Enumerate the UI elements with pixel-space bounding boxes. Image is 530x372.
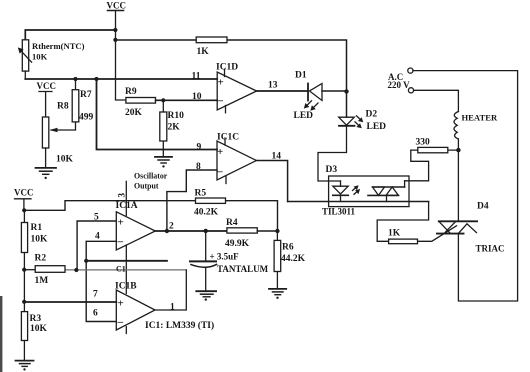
opto light arrow 1 — [353, 187, 358, 191]
ground R3 — [16, 360, 34, 362]
D2 LED arrow 1 — [357, 116, 362, 121]
svg-text:Oscillator: Oscillator — [134, 172, 168, 181]
svg-text:6: 6 — [93, 309, 98, 319]
wire AC bottom to heater — [414, 90, 459, 111]
capacitor C2 bottom lead — [205, 267, 207, 291]
svg-text:+: + — [118, 298, 124, 310]
svg-text:49.9K: 49.9K — [225, 239, 250, 249]
resistor R7 body — [72, 90, 79, 122]
node junction VCC/R1 — [22, 208, 26, 212]
svg-text:R6: R6 — [282, 243, 294, 253]
node junction pin7 — [22, 300, 26, 304]
node junction pin9 tap — [94, 77, 98, 81]
wire IC1C output pin 14 — [256, 161, 287, 202]
node junction 330/heater — [456, 148, 460, 152]
ground R10 — [155, 156, 172, 158]
wire IC1D output pin 13 — [257, 90, 308, 92]
svg-text:330: 330 — [416, 138, 431, 148]
D2 LED arrow 2 — [355, 122, 360, 127]
svg-text:R5: R5 — [195, 189, 207, 199]
op-amp IC1C triangle — [217, 141, 256, 180]
resistor 330 body and leads — [411, 149, 459, 151]
triac D4 symbol — [439, 220, 477, 222]
svg-text:R10: R10 — [168, 111, 185, 121]
svg-text:TIL3011: TIL3011 — [322, 207, 356, 217]
node junction R1/R2 — [22, 268, 26, 272]
IC1D bottom stub — [225, 106, 227, 113]
VCC symbol mid-left — [39, 92, 52, 118]
svg-text:3: 3 — [117, 193, 127, 198]
wire IC1A pin 5 — [77, 221, 116, 270]
node junction osc output — [165, 229, 169, 233]
svg-text:R9: R9 — [125, 87, 137, 97]
wire R10 leads — [162, 100, 164, 157]
wire heater to triac — [457, 139, 459, 221]
svg-text:499: 499 — [79, 113, 94, 123]
svg-text:VCC: VCC — [37, 81, 57, 91]
svg-text:5: 5 — [94, 213, 99, 223]
svg-text:2K: 2K — [168, 123, 181, 133]
svg-text:D4: D4 — [477, 202, 489, 212]
wire 1K top run — [116, 40, 347, 117]
node junction R4/R5/R6 — [275, 229, 279, 233]
svg-text:8: 8 — [196, 162, 201, 172]
capacitor C2 tantalum lead — [205, 231, 207, 261]
node junction R2/pin5 — [74, 268, 78, 272]
svg-text:Rtherm(NTC): Rtherm(NTC) — [32, 41, 85, 51]
svg-text:–: – — [216, 166, 223, 178]
svg-text:220 V: 220 V — [388, 80, 411, 90]
wire pin6 riser — [86, 261, 116, 322]
wire IC1A pin 4 — [86, 241, 116, 260]
opto triac symbol — [373, 186, 405, 188]
svg-text:IC1A: IC1A — [116, 201, 138, 211]
wire thermistor top — [25, 30, 115, 40]
opto LED symbol — [340, 181, 342, 186]
wire opto to gate loop — [377, 202, 428, 242]
VCC symbol top — [108, 10, 124, 12]
AC terminal bottom — [408, 88, 413, 93]
wire sense rail to IC1D pin 11 — [25, 78, 217, 80]
wire pin3 stub IC1A — [125, 181, 127, 215]
op-amp IC1B triangle — [116, 290, 155, 330]
svg-text:D2: D2 — [366, 110, 378, 120]
svg-text:+ 3.5uF: + 3.5uF — [210, 252, 240, 262]
ground R6 — [269, 288, 286, 290]
svg-text:C1: C1 — [116, 265, 126, 274]
svg-text:7: 7 — [93, 290, 98, 300]
IC1A bottom stub / C1 line — [125, 245, 127, 294]
wire R2 to IC1B output (gray) — [65, 269, 186, 271]
svg-text:–: – — [217, 95, 224, 107]
resistor R6 body — [274, 240, 281, 271]
svg-text:R2: R2 — [35, 254, 47, 264]
wire R8 to ground — [45, 148, 47, 168]
opto triac bottom lead — [386, 195, 388, 201]
svg-text:Output: Output — [134, 182, 159, 191]
D1 LED arrow 2 — [312, 103, 318, 109]
wire R2 row — [24, 269, 35, 271]
svg-text:1M: 1M — [35, 276, 49, 286]
node junction VCC/1K branch — [113, 38, 117, 42]
svg-text:–: – — [117, 236, 124, 248]
AC terminal top — [408, 68, 413, 73]
wire R3 to ground — [23, 341, 25, 361]
wire D1 to junction — [322, 90, 347, 92]
svg-text:R1: R1 — [31, 223, 43, 233]
svg-text:1K: 1K — [388, 229, 401, 239]
wire IC1B pin 7 — [24, 301, 116, 303]
resistor R4 body and lead — [227, 228, 257, 233]
svg-text:IC1C: IC1C — [217, 133, 239, 143]
svg-text:40.2K: 40.2K — [194, 208, 219, 218]
diode D1 triangle — [310, 84, 323, 101]
svg-text:9: 9 — [197, 143, 202, 153]
diode D2 cathode bar — [339, 125, 355, 127]
IC1D top stub — [224, 69, 226, 76]
resistor 1K body — [389, 239, 418, 244]
svg-text:+: + — [118, 217, 124, 229]
svg-text:R4: R4 — [226, 218, 238, 228]
svg-text:VCC: VCC — [14, 188, 34, 198]
R8 wiper arrowhead — [50, 128, 58, 133]
op-amp IC1D triangle — [217, 72, 256, 110]
wire opto LED row — [288, 201, 429, 203]
svg-text:2: 2 — [169, 222, 174, 232]
svg-text:10K: 10K — [30, 324, 48, 334]
scan artifact left edge — [0, 296, 2, 372]
svg-text:–: – — [117, 316, 124, 328]
wire thermistor bottom to rail — [24, 71, 26, 79]
svg-text:TANTALUM: TANTALUM — [217, 264, 269, 274]
diode D2 triangle — [339, 117, 355, 125]
svg-text:+: + — [217, 146, 223, 158]
ground C2 — [196, 290, 216, 292]
D1 LED arrow 1 — [306, 101, 312, 107]
wire AC top to right loop — [413, 71, 518, 301]
svg-text:IC1D: IC1D — [216, 63, 238, 73]
node junction R9/R10 — [161, 98, 165, 102]
resistor R10 body — [160, 112, 167, 141]
svg-text:1K: 1K — [197, 47, 210, 57]
resistor R3 body — [21, 312, 27, 341]
svg-text:D1: D1 — [295, 71, 307, 81]
wire R1 to R3 — [23, 270, 25, 312]
resistor 1K gate leads — [377, 226, 456, 242]
resistor R1 body — [21, 223, 27, 253]
wire VCC rail mid — [24, 201, 277, 231]
svg-text:IC1: LM339 (TI): IC1: LM339 (TI) — [145, 320, 214, 331]
wire IC1C pin 8 oscillator feed — [167, 170, 217, 231]
thermistor arrow — [20, 49, 32, 62]
node junction cap tap — [204, 229, 208, 233]
op-amp IC1A triangle — [116, 212, 155, 250]
potentiometer R8 body — [42, 117, 48, 148]
svg-text:IC1B: IC1B — [115, 282, 137, 292]
resistor 1K body — [196, 37, 227, 43]
wire D2 to opto LED — [318, 126, 347, 181]
svg-text:10K: 10K — [32, 52, 48, 62]
capacitor C2 top plate — [190, 260, 216, 262]
svg-text:10: 10 — [192, 92, 202, 102]
node junction pin4 feedback — [84, 259, 88, 263]
heater element — [454, 112, 458, 140]
IC1C top stub — [224, 138, 226, 145]
svg-text:VCC: VCC — [107, 1, 127, 11]
wire VCC top stem — [116, 11, 126, 101]
resistor R2 body — [35, 266, 65, 273]
svg-text:44.2K: 44.2K — [281, 254, 306, 264]
optocoupler D3 box — [329, 176, 409, 207]
svg-text:14: 14 — [272, 152, 282, 162]
VCC symbol bottom-left — [15, 199, 32, 211]
wire R6 leads — [276, 231, 278, 289]
svg-text:LED: LED — [367, 122, 387, 132]
svg-text:TRIAC: TRIAC — [476, 244, 505, 254]
wire IC1B output riser — [155, 270, 186, 310]
wire 330 to opto — [405, 150, 429, 181]
svg-text:R8: R8 — [57, 102, 69, 112]
opto light arrow 2 — [354, 190, 359, 194]
svg-text:LED: LED — [294, 111, 314, 121]
resistor R7 leads — [51, 79, 76, 130]
node junction D1/D2/1K — [344, 89, 348, 93]
svg-text:13: 13 — [268, 81, 278, 91]
svg-text:20K: 20K — [125, 108, 143, 118]
thermistor Rtherm(NTC) body — [22, 40, 28, 71]
svg-text:10K: 10K — [56, 155, 74, 165]
svg-text:10K: 10K — [31, 235, 49, 245]
svg-text:4: 4 — [95, 232, 100, 242]
svg-text:HEATER: HEATER — [462, 113, 498, 123]
svg-text:R7: R7 — [80, 90, 92, 100]
wire IC1A output pin 2 — [155, 230, 227, 232]
svg-text:R3: R3 — [30, 314, 42, 324]
IC1C bottom stub — [225, 177, 227, 184]
ground R8 — [36, 167, 57, 169]
resistor R9 body — [126, 98, 156, 104]
diode D1 cathode bar — [307, 84, 309, 101]
svg-text:+: + — [218, 77, 224, 89]
wire R9 to IC1D pin 10 — [156, 99, 218, 101]
resistor R5 body — [196, 198, 226, 203]
svg-text:D3: D3 — [326, 165, 338, 175]
capacitor C2 curved plate — [191, 264, 217, 267]
node junction VCC/thermistor top — [113, 28, 117, 32]
wire to IC1C pin 9 — [97, 79, 218, 150]
svg-text:11: 11 — [192, 72, 201, 82]
node junction R7 tap — [73, 77, 77, 81]
wire feedback pin4 to output — [86, 260, 167, 262]
resistor R1 leads — [23, 210, 25, 269]
svg-text:1: 1 — [170, 303, 175, 313]
IC1B bottom stub — [125, 327, 127, 334]
opto triac top lead — [404, 181, 406, 187]
